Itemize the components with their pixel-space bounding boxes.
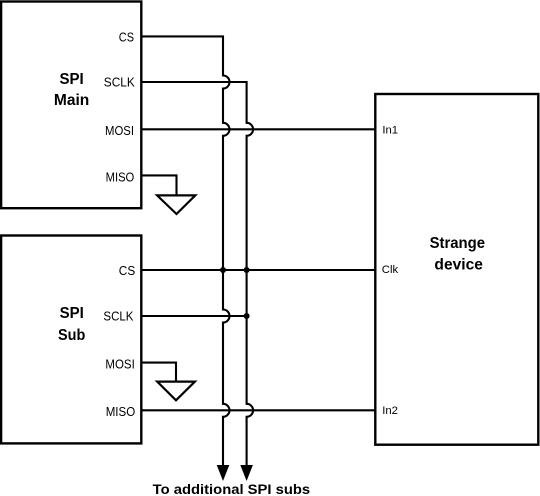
no-connect open arrow on U1 MISO bbox=[157, 195, 195, 214]
IC box U3 Strange device bbox=[375, 94, 538, 445]
svg-text:SPI: SPI bbox=[60, 71, 84, 88]
svg-text:In2: In2 bbox=[382, 405, 398, 417]
svg-text:MOSI: MOSI bbox=[105, 123, 134, 138]
IC box U2 SPI Sub bbox=[1, 236, 141, 444]
wire MISO U1 stub to no-connect arrow bbox=[141, 175, 176, 195]
svg-text:Strange: Strange bbox=[430, 235, 486, 252]
svg-text:SCLK: SCLK bbox=[103, 309, 134, 324]
wire CS U2 to Clk U3 bbox=[141, 269, 375, 271]
svg-text:To additional SPI subs: To additional SPI subs bbox=[153, 482, 311, 496]
IC box U1 SPI Main bbox=[1, 2, 141, 209]
wire MOSI U2 stub to no-connect arrow bbox=[141, 363, 176, 382]
junction dot SCLK bus / U2 SCLK bbox=[244, 313, 250, 319]
arrowhead SCLK bus continuation bbox=[240, 465, 253, 481]
svg-text:MOSI: MOSI bbox=[105, 357, 134, 372]
svg-text:MISO: MISO bbox=[106, 170, 135, 185]
wire MOSI U1 to In1 U3 bbox=[141, 128, 375, 130]
svg-text:Clk: Clk bbox=[382, 264, 399, 276]
svg-text:CS: CS bbox=[119, 30, 134, 45]
wire CS net: U1 CS pin to vertical CS bus with hops bbox=[141, 36, 229, 465]
svg-text:SCLK: SCLK bbox=[104, 75, 135, 90]
junction dot CS bus / U2 CS bbox=[220, 267, 226, 273]
no-connect open arrow on U2 MOSI bbox=[157, 382, 195, 401]
wire SCLK net: U1 SCLK pin to vertical SCLK bus with hops bbox=[141, 82, 253, 465]
svg-text:Sub: Sub bbox=[58, 327, 85, 344]
wire MISO U2 to In2 U3 bbox=[141, 409, 375, 411]
svg-text:MISO: MISO bbox=[106, 404, 136, 419]
svg-text:CS: CS bbox=[119, 263, 135, 278]
svg-text:device: device bbox=[434, 256, 483, 273]
svg-text:SPI: SPI bbox=[60, 305, 84, 322]
junction dot SCLK bus / U2 CS bbox=[244, 267, 250, 273]
arrowhead CS bus continuation bbox=[217, 465, 230, 481]
svg-text:Main: Main bbox=[54, 92, 89, 109]
svg-text:In1: In1 bbox=[382, 124, 398, 136]
wire SCLK U2 to SCLK bus bbox=[141, 315, 246, 317]
